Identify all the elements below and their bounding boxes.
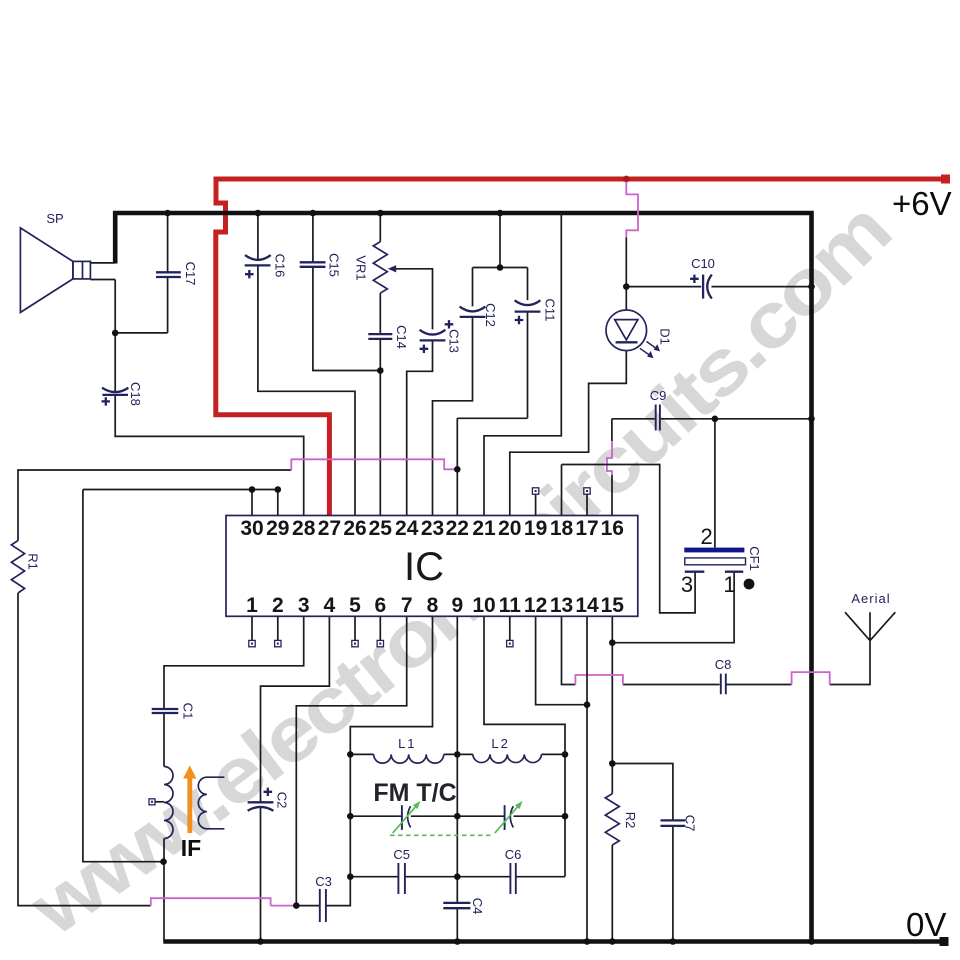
svg-text:29: 29 [266,517,289,540]
wire IC pins 29+30 to IF transformer bottom [83,490,278,862]
svg-text:C2: C2 [275,792,290,809]
node L2 right node [562,751,569,758]
node VR1 top on 6V bus [377,210,384,217]
node +6V rail terminal (red square) [941,175,950,184]
svg-text:+6V: +6V [892,185,952,222]
node C10 to right bus [808,283,815,290]
node L1/L2 centre node [454,751,461,758]
node tuning cap right node [562,813,569,820]
node C2 on 0V rail [257,938,264,945]
svg-text:C5: C5 [393,847,410,862]
svg-text:IC: IC [404,545,444,589]
wire IC pin 3 to C1 and IF primary [164,616,304,941]
capacitor C13 (electrolytic) [420,329,462,353]
capacitor C6 [505,847,522,894]
wire IC pin 20 to LED cathode [510,351,627,516]
svg-text:21: 21 [472,517,496,540]
wire IC pin 10 to L2 right node [484,616,565,754]
node C17 top on 6V bus [164,210,171,217]
node tuning cap left node [347,813,354,820]
wire IC pin 14 to 0V [586,616,588,941]
aerial antenna [845,591,895,641]
wire tank left column [349,754,351,876]
wire magenta bump left of C8 [575,675,623,685]
wire top 6V bus (thick black) [115,213,811,942]
capacitor C7 [661,815,698,832]
svg-text:C8: C8 [715,657,732,672]
capacitor C1 [152,703,196,720]
svg-text:R1: R1 [26,553,41,570]
node C14/C15/pin25 node [377,367,384,374]
svg-text:SP: SP [46,211,63,226]
node C9 row to right bus [808,416,815,423]
pin 2 unconnected terminal [275,616,281,647]
node C9 row to CF1 pin2 [712,416,719,423]
node CF1 pin1 / pin15 node [609,639,616,646]
wire IC pin 16 riser to C9 row [611,419,613,516]
wire speaker top terminal to 6V bus [90,262,115,264]
svg-text:VR1: VR1 [354,255,369,280]
svg-text:CF1: CF1 [747,546,762,571]
svg-text:2: 2 [272,594,284,617]
wire L1 L2 row [350,753,565,755]
svg-text:C4: C4 [470,898,485,915]
wire magenta bump over right bus to aerial [792,672,830,684]
svg-text:C7: C7 [683,815,698,832]
svg-text:C6: C6 [505,847,522,862]
potentiometer VR1 [354,242,397,294]
capacitor C15 [300,253,342,277]
node C3/pin7/R1 node [293,902,300,909]
capacitor C17 [156,262,198,286]
ganged tuning dashed link [390,834,492,836]
wire tank right column [564,754,566,876]
svg-text:Aerial: Aerial [851,591,890,606]
svg-text:C10: C10 [691,256,715,271]
wire C3 row [296,877,350,906]
svg-text:L1: L1 [398,736,416,751]
svg-text:1: 1 [246,594,258,617]
capacitor C18 (electrolytic) [102,382,144,406]
svg-text:19: 19 [524,517,547,540]
wire IC pin 12 to pin 14 net [536,616,587,704]
IC pin numbers bottom row 1-15 [246,594,624,617]
svg-text:5: 5 [349,594,361,617]
svg-text:28: 28 [292,517,316,540]
wire R1 bottom to C3 node [18,593,151,906]
svg-text:16: 16 [601,517,624,540]
wire C5 C6 row [350,876,565,878]
svg-text:30: 30 [240,517,263,540]
svg-text:C12: C12 [483,303,498,327]
wire IC pin 8 to L1 left node [350,616,432,754]
variable capacitor FM T/C left [393,801,421,833]
node pin29 tie [275,486,282,493]
svg-text:4: 4 [324,594,336,617]
wire IC pin 18 to ceramic filter pin 3 [562,465,696,613]
capacitor C14 [368,325,409,349]
wire C17 to rail and to speaker node [115,213,167,333]
wire ceramic filter pin 1 to IC pin 15 net [612,572,734,643]
capacitor C2 (electrolytic) [248,788,290,811]
node tuning cap centre node [454,813,461,820]
watermark www.electroniccircuits.com [14,186,906,953]
svg-text:18: 18 [550,517,574,540]
svg-text:L2: L2 [491,736,509,751]
node R2 on 0V rail [609,938,616,945]
svg-text:C9: C9 [650,388,667,403]
wire IC pin 9 center tank column [456,616,458,941]
wire magenta bump bottom left [151,898,296,905]
ceramic filter CF1 [681,524,762,597]
capacitor C12 (electrolytic) [445,303,498,328]
pin 6 unconnected terminal [377,616,383,647]
svg-text:3: 3 [681,572,693,597]
node IF bottom node [160,858,167,865]
wire IC pin 15 / R2 branch [611,616,613,941]
pin 19 unconnected terminal [532,488,538,516]
svg-text:C13: C13 [447,329,462,353]
svg-text:FM T/C: FM T/C [373,779,456,807]
pin 11 unconnected terminal [507,616,513,647]
wire C12 top and bottom to IC pin 23 [433,268,473,516]
svg-text:25: 25 [369,517,393,540]
node 0V rail terminal (black square) [940,937,949,946]
pin 17 unconnected terminal [584,488,590,516]
svg-text:27: 27 [318,517,341,540]
svg-text:24: 24 [395,517,419,540]
node L1 left node [347,751,354,758]
svg-text:11: 11 [499,594,522,617]
svg-text:17: 17 [575,517,598,540]
capacitor C3 [315,874,332,922]
svg-text:15: 15 [601,594,625,617]
node pin22/R1/C11 node [454,466,461,473]
pin 5 unconnected terminal [352,616,358,647]
node pin30 tie [249,486,256,493]
capacitor C8 [715,657,732,694]
wire IC pin 13 to C8 and aerial [562,616,871,684]
resistor R2 [605,794,638,845]
wire VR1 to rail / C14 / IC pin 25 [379,213,381,516]
wire +6V red supply rail [216,179,945,516]
node pin12/pin14 node [584,701,591,708]
node C5 left node [347,873,354,880]
node pin14 on 0V rail [584,938,591,945]
node speaker/C17/C18 node [112,330,119,337]
svg-text:3: 3 [298,594,310,617]
svg-text:C16: C16 [273,254,288,278]
svg-text:22: 22 [446,517,469,540]
IC pin numbers top row 30-16 [240,517,624,540]
wire magenta jog on pin16 riser [607,441,612,475]
svg-text:13: 13 [550,594,573,617]
inductor L1 [374,736,444,763]
wire C10 row LED node to right bus [626,286,811,288]
wire LED anode node down from red rail [625,238,627,311]
node C12/C11 feed on 6V bus [497,210,504,217]
capacitor C5 [393,847,410,894]
svg-text:12: 12 [524,594,547,617]
node C4 on 0V rail [454,938,461,945]
node C15 top on 6V bus [310,210,317,217]
svg-text:D1: D1 [658,328,673,345]
svg-text:C14: C14 [394,325,409,349]
svg-text:R2: R2 [623,812,638,829]
variable capacitor FM T/C right [495,801,523,833]
capacitor C16 (electrolytic) [245,254,288,279]
capacitor C11 (electrolytic) [515,299,558,325]
svg-text:9: 9 [451,594,463,617]
svg-text:IF: IF [181,835,201,861]
IC body [226,516,638,617]
node C12/C11 split node [497,264,504,271]
wire C15 to rail and to C14 junction [313,213,380,371]
wire C9 row to right bus and CF1 pin2 drop [612,419,812,548]
svg-text:20: 20 [498,517,521,540]
wire rail feed to C12 and C11 [473,213,528,268]
svg-text:C18: C18 [128,382,143,406]
wire C16 to rail and to IC pin 26 [258,213,355,516]
svg-text:6: 6 [374,594,386,617]
IF transformer [149,766,224,862]
capacitor C4 [443,898,485,915]
svg-text:C1: C1 [180,703,195,720]
wire FM tuning cap row [350,815,565,817]
node right bus on 0V rail [808,938,815,945]
LED D1 [606,310,673,358]
pin 1 unconnected terminal [249,616,255,647]
capacitor C9 [650,388,667,431]
wire C7 branch [612,764,673,942]
node R2/C7 branch node [609,760,616,767]
wire IC pin 7 to C3 node [296,616,406,905]
svg-text:23: 23 [421,517,444,540]
node C7 on 0V rail [670,938,677,945]
svg-text:C11: C11 [543,299,558,322]
wire R1 top to pin22 net [18,470,291,541]
svg-text:10: 10 [472,594,495,617]
node LED anode / C10 node [623,283,630,290]
svg-text:0V: 0V [906,906,946,943]
wire VR1 wiper to C13 and pin 24 [395,269,433,516]
wire IC pin 21 riser to 6V rail [484,213,561,516]
wire magenta raised section of pin22 net [291,459,457,470]
wire 0V bottom rail (thick black) [163,939,948,944]
node C16 top on 6V bus [255,210,262,217]
wire C11 top and bottom to IC pin 22 [457,268,527,516]
wire speaker bottom terminal down to C18 [90,280,115,392]
capacitor C10 (electrolytic) [690,256,715,299]
inductor L2 [473,736,542,763]
wire magenta jog from red rail to LED branch [626,182,638,238]
svg-text:7: 7 [401,594,413,617]
wire C18 bottom to IC pin 28 [115,395,304,516]
resistor R1 [11,541,40,594]
node red rail junction [623,176,630,183]
svg-text:26: 26 [343,517,366,540]
node C5/C6/C4 node [454,873,461,880]
svg-text:C15: C15 [327,253,342,277]
svg-text:C17: C17 [183,262,198,286]
svg-text:14: 14 [575,594,599,617]
wire IC pin 4 to C2 [261,616,330,941]
svg-text:8: 8 [427,594,439,617]
speaker SP [20,211,90,312]
svg-text:2: 2 [700,524,712,549]
svg-text:1: 1 [723,572,735,597]
svg-text:C3: C3 [315,874,332,889]
